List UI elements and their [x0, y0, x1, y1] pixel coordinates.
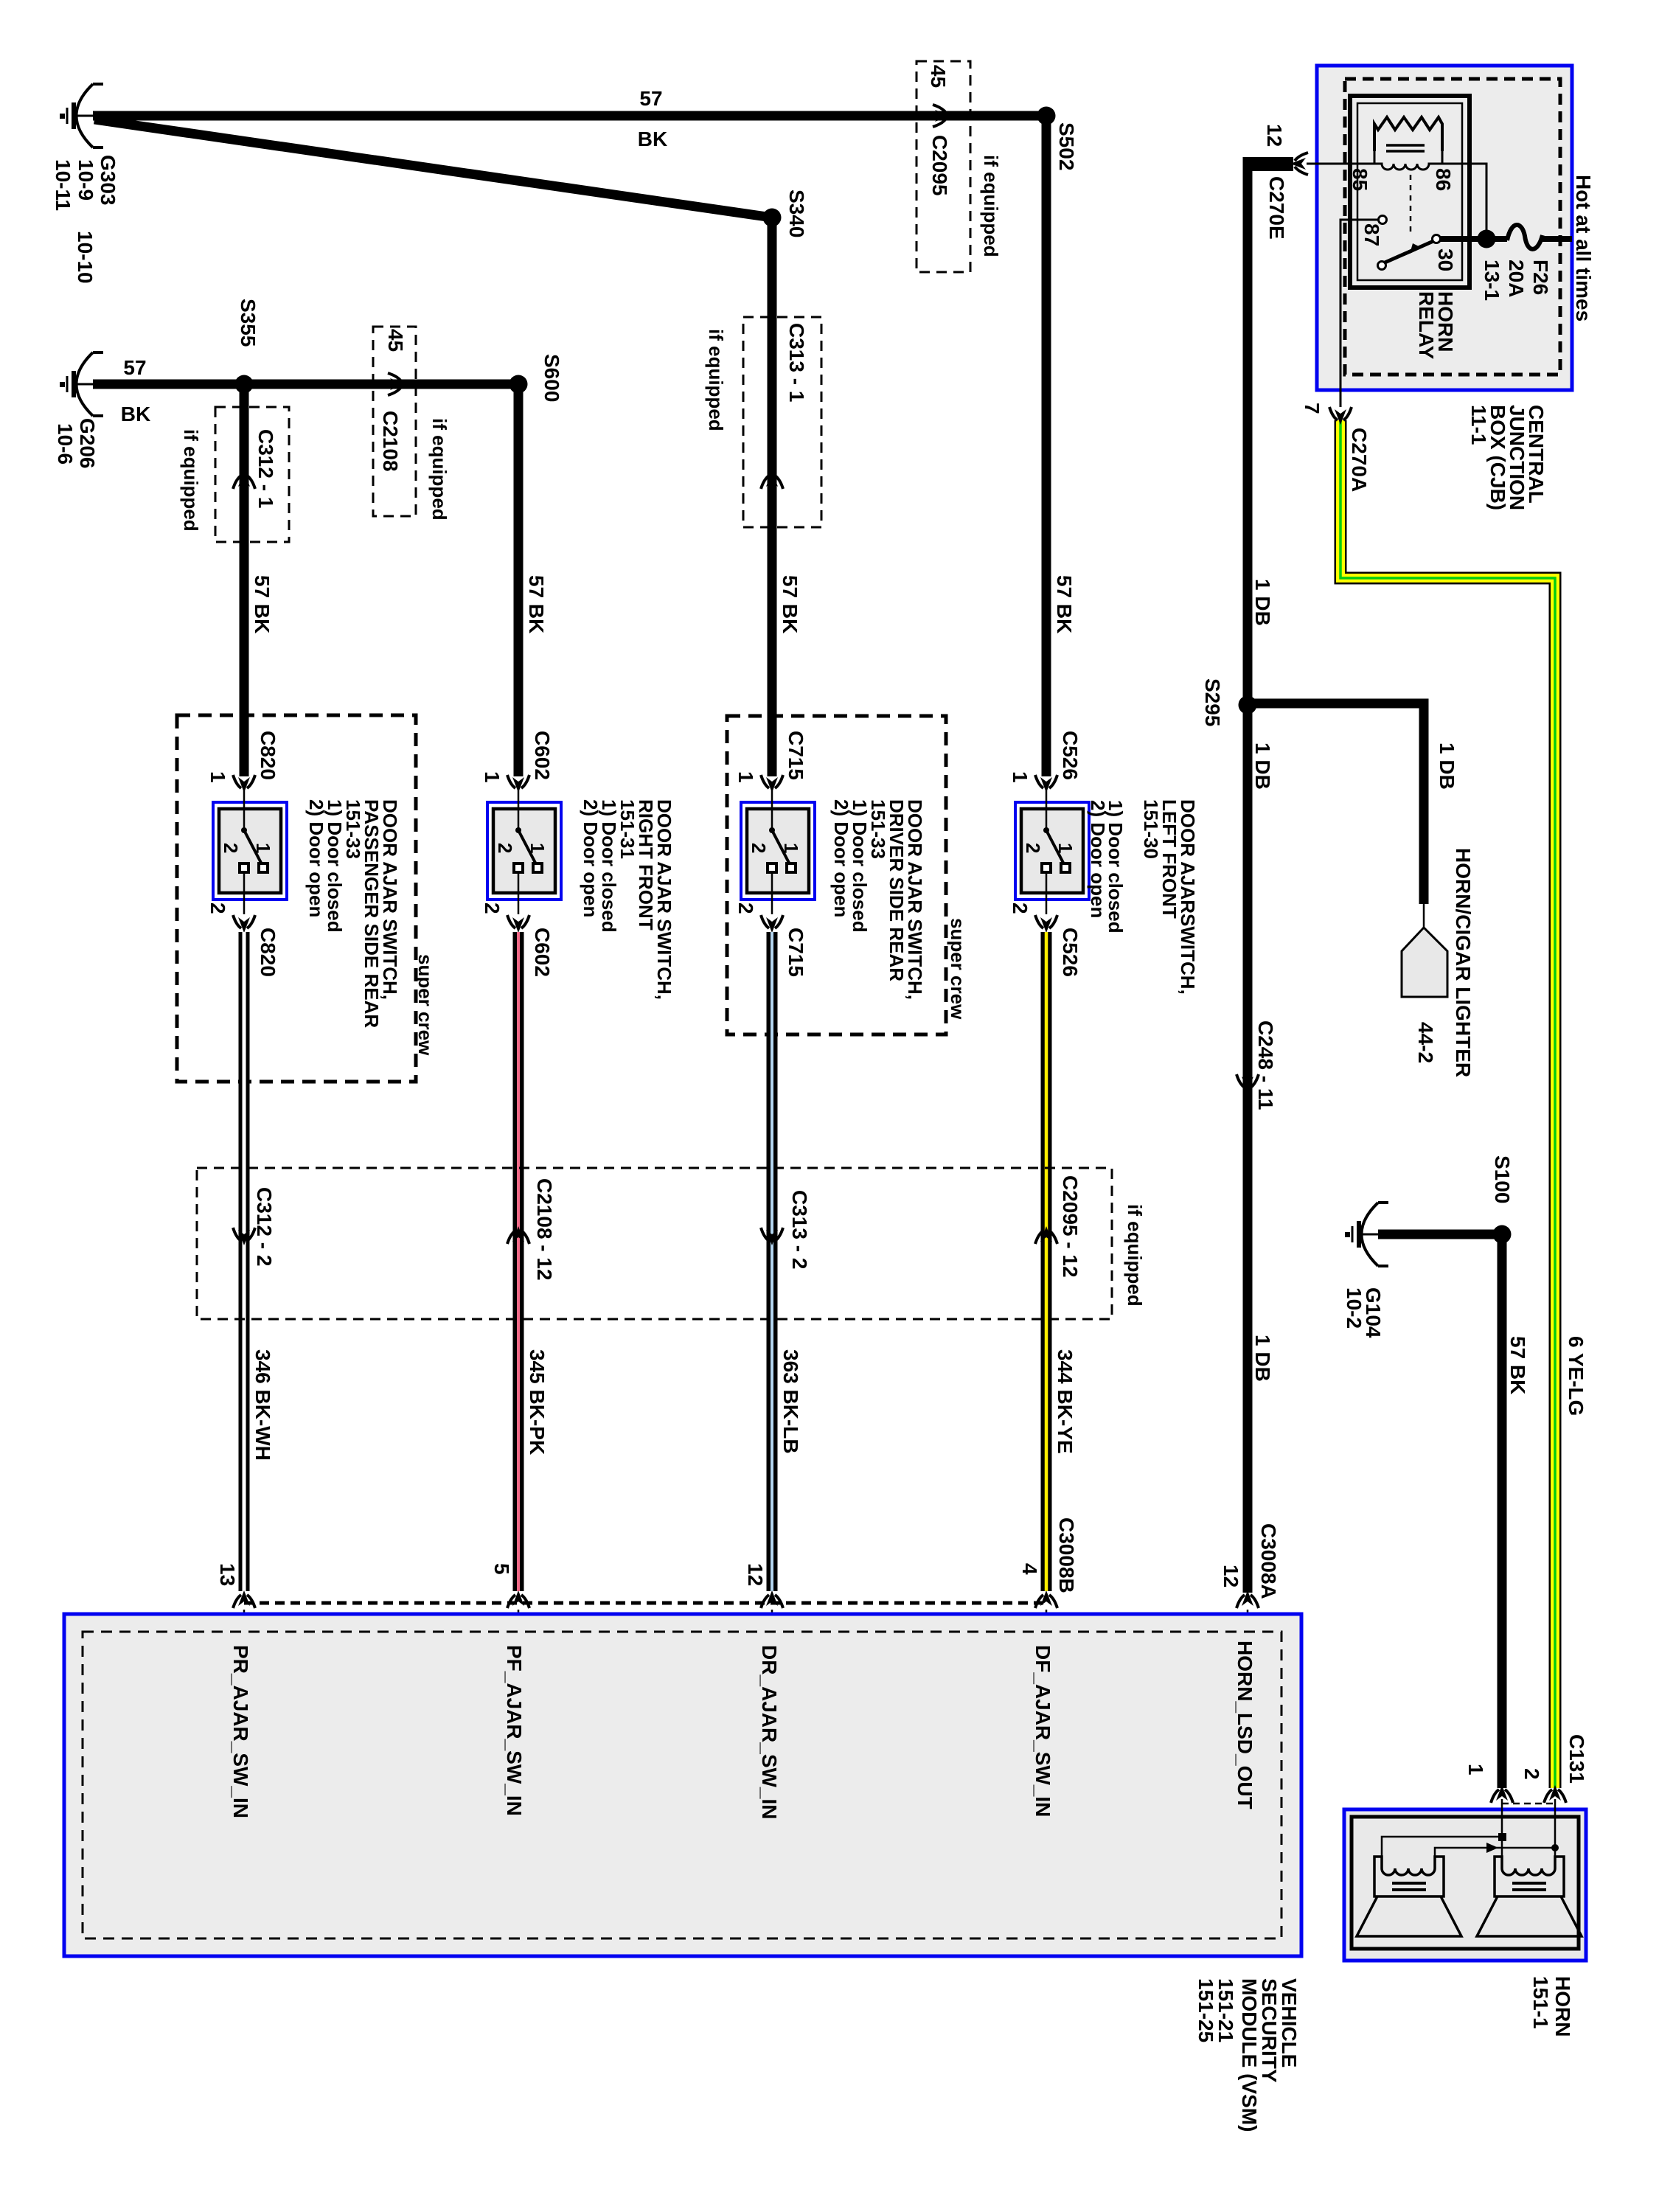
svg-text:10-10: 10-10	[74, 231, 97, 284]
connector C2108-12	[507, 1226, 529, 1244]
svg-text:45: 45	[927, 65, 950, 88]
svg-text:2: 2	[734, 902, 757, 914]
svg-text:S340: S340	[785, 189, 808, 237]
svg-text:C820: C820	[257, 731, 279, 780]
svg-text:10-2: 10-2	[1343, 1287, 1366, 1329]
svg-text:7: 7	[1301, 403, 1324, 414]
svg-text:57: 57	[123, 356, 146, 379]
connector C3008B dashed line	[244, 1601, 1046, 1605]
svg-text:57 BK: 57 BK	[525, 575, 548, 633]
svg-text:6 YE-LG: 6 YE-LG	[1565, 1336, 1587, 1416]
wire 57 BK from G303 to S502	[93, 111, 1046, 121]
wire 346 BK-WH	[239, 932, 250, 1591]
splice relay 86 / fuse node	[1478, 230, 1496, 248]
svg-text:1: 1	[1464, 1764, 1487, 1775]
svg-text:DR_AJAR_SW_IN: DR_AJAR_SW_IN	[758, 1645, 781, 1820]
connector C2108	[388, 373, 406, 395]
svg-text:1: 1	[1054, 843, 1077, 853]
switch pin2 lead	[518, 874, 520, 914]
svg-text:87: 87	[1360, 223, 1383, 246]
svg-text:RELAY: RELAY	[1415, 291, 1438, 360]
svg-text:C3008B: C3008B	[1055, 1517, 1078, 1593]
connector C312-1	[233, 471, 255, 489]
svg-text:C602: C602	[531, 928, 554, 977]
horn box	[1344, 1809, 1586, 1961]
svg-text:C270A: C270A	[1348, 428, 1371, 492]
svg-text:G303: G303	[97, 155, 119, 206]
switch pin2 lead	[1046, 874, 1048, 914]
svg-text:2: 2	[206, 902, 229, 914]
svg-text:12: 12	[1263, 124, 1286, 147]
relay coil core lines	[1386, 145, 1425, 151]
connector C3008B pin 5	[507, 1590, 529, 1608]
svg-text:C2108 - 12: C2108 - 12	[533, 1178, 556, 1281]
svg-text:2: 2	[1520, 1768, 1543, 1780]
switch blade	[244, 830, 262, 864]
wire 57 BK to C602 pin 1	[514, 384, 524, 776]
svg-text:C2095 - 12: C2095 - 12	[1059, 1175, 1082, 1278]
connector C270A	[1329, 407, 1352, 425]
relay actuator dashed link	[1410, 175, 1412, 234]
relay pin 30 contact	[1433, 235, 1441, 243]
svg-text:151-25: 151-25	[1194, 1978, 1217, 2042]
svg-text:super crew: super crew	[947, 918, 969, 1020]
C312-1 dashed box	[215, 407, 289, 542]
svg-text:F26: F26	[1529, 260, 1552, 295]
connector C526 pin 2	[1035, 915, 1057, 933]
svg-text:if equipped: if equipped	[1124, 1204, 1146, 1307]
svg-text:10-9: 10-9	[74, 159, 97, 201]
cigar lighter symbol	[1402, 928, 1447, 997]
connector C2095	[933, 105, 950, 127]
horn wiring pin 2	[1554, 1799, 1557, 1868]
svg-text:1: 1	[526, 843, 549, 853]
svg-text:13-1: 13-1	[1481, 260, 1503, 301]
svg-text:57: 57	[639, 87, 662, 110]
wire 1 DB main vertical	[1243, 157, 1253, 1593]
svg-text:C820: C820	[257, 928, 279, 977]
door ajar switch C526	[1015, 802, 1089, 900]
svg-text:if equipped: if equipped	[180, 429, 202, 532]
svg-text:DF_AJAR_SW_IN: DF_AJAR_SW_IN	[1032, 1645, 1054, 1817]
splice S100	[1493, 1225, 1512, 1244]
horn wiring pin 1	[1501, 1799, 1503, 1868]
svg-text:2) Door open: 2) Door open	[305, 799, 327, 917]
switch pin1 lead	[243, 790, 246, 829]
wire 57 BK to C715 pin 1	[768, 218, 777, 776]
svg-text:57 BK: 57 BK	[779, 575, 801, 633]
switch blade	[1046, 830, 1064, 864]
svg-text:151-30: 151-30	[1140, 799, 1162, 859]
svg-text:C2108: C2108	[379, 411, 402, 472]
horn element left	[1374, 1857, 1444, 1896]
connector C3008B pin 4	[1035, 1590, 1057, 1608]
svg-text:2) Door open: 2) Door open	[580, 799, 602, 917]
relay blade	[1383, 241, 1433, 263]
svg-text:C312 - 1: C312 - 1	[254, 429, 277, 508]
svg-text:2) Door open: 2) Door open	[1087, 800, 1109, 918]
connector C313-1	[761, 471, 783, 489]
svg-text:346 BK-WH: 346 BK-WH	[251, 1349, 274, 1461]
connector C3008B pin 13	[233, 1590, 255, 1608]
wire stub into VSM	[1046, 1610, 1048, 1632]
svg-text:C715: C715	[785, 928, 807, 977]
door ajar switch C715	[741, 802, 815, 900]
switch pin1 lead	[518, 790, 520, 829]
svg-text:C131: C131	[1565, 1734, 1588, 1784]
svg-text:13: 13	[216, 1563, 239, 1586]
wire 57 BK to C820 pin 1	[240, 384, 249, 776]
connector C602 pin 1	[507, 775, 529, 793]
switch pin2 lead	[771, 874, 773, 914]
svg-text:C270E: C270E	[1265, 176, 1288, 240]
svg-text:12: 12	[1220, 1565, 1242, 1587]
svg-text:5: 5	[490, 1563, 513, 1575]
svg-text:12: 12	[744, 1563, 767, 1586]
connector C820 pin 2	[233, 915, 255, 933]
splice S502	[1037, 107, 1056, 125]
svg-text:10-11: 10-11	[52, 159, 74, 211]
splice S600	[509, 375, 528, 394]
connector C602 pin 2	[507, 915, 529, 933]
wire stub into VSM	[771, 1610, 773, 1632]
wire stub into VSM	[243, 1610, 246, 1632]
connector C715 pin 2	[761, 915, 783, 933]
switch blade	[518, 830, 536, 864]
svg-text:1 DB: 1 DB	[1251, 1335, 1274, 1382]
svg-text:1: 1	[1009, 771, 1032, 783]
connector C313-2	[761, 1228, 783, 1245]
connector C131 dashed line	[1502, 1803, 1555, 1805]
svg-text:2: 2	[1022, 843, 1044, 853]
svg-text:2: 2	[1009, 902, 1032, 914]
svg-text:S355: S355	[237, 299, 260, 347]
connector C3008A pin 12	[1237, 1590, 1259, 1608]
svg-text:151-1: 151-1	[1529, 1976, 1552, 2029]
switch blade	[772, 830, 790, 864]
connector C820 pin 1	[233, 775, 255, 793]
svg-text:S100: S100	[1491, 1155, 1514, 1203]
svg-text:BK: BK	[121, 403, 150, 425]
wire 57 BK to C526 pin 1	[1042, 116, 1051, 776]
if equipped dashed box	[197, 1168, 1112, 1319]
svg-text:85: 85	[1349, 168, 1371, 191]
svg-text:1: 1	[780, 843, 802, 853]
wire 363 BK-LB	[767, 932, 778, 1591]
relay resistor zigzag	[1374, 117, 1442, 151]
super crew dashed box (passenger rear)	[177, 715, 416, 1082]
connector C131 pin 2	[1544, 1785, 1566, 1803]
svg-text:C313 - 2: C313 - 2	[788, 1190, 811, 1269]
svg-text:S502: S502	[1055, 122, 1078, 170]
svg-text:30: 30	[1434, 248, 1457, 271]
wire S295 branch to cigar lighter	[1248, 703, 1424, 904]
ground G206	[60, 352, 103, 416]
svg-text:363 BK-LB: 363 BK-LB	[779, 1349, 802, 1454]
svg-text:if equipped: if equipped	[705, 329, 727, 431]
svg-text:1: 1	[206, 771, 229, 783]
svg-text:1 DB: 1 DB	[1436, 742, 1458, 790]
connector C526 pin 1	[1035, 775, 1057, 793]
horn element right	[1495, 1857, 1564, 1896]
connector C248-11	[1237, 1074, 1259, 1092]
svg-text:S600: S600	[540, 354, 563, 402]
svg-text:if equipped: if equipped	[428, 418, 451, 521]
connector C2095-12	[1035, 1226, 1057, 1244]
svg-text:Hot at all times: Hot at all times	[1572, 175, 1595, 321]
svg-text:45: 45	[384, 329, 407, 352]
svg-text:1 DB: 1 DB	[1251, 579, 1274, 626]
svg-text:PF_AJAR_SW_IN: PF_AJAR_SW_IN	[503, 1645, 526, 1816]
svg-text:BK: BK	[638, 128, 667, 150]
connector C270E	[1290, 153, 1308, 175]
door ajar switch C820	[213, 802, 287, 900]
wire 57 BK to horn	[1498, 1234, 1507, 1788]
VSM dashed outline	[83, 1632, 1281, 1938]
relay coil bumps + pin85 lead	[1307, 164, 1486, 239]
svg-text:if equipped: if equipped	[980, 155, 1002, 257]
splice S340	[763, 209, 782, 227]
switch pin1 lead	[771, 790, 773, 829]
C2108 dashed box	[373, 327, 416, 516]
svg-text:C715: C715	[785, 731, 807, 780]
switch pin2 lead	[243, 874, 246, 914]
connector C3008B pin 12	[761, 1590, 783, 1608]
svg-text:G206: G206	[76, 418, 99, 469]
horn relay box	[1350, 96, 1470, 288]
super crew dashed box (driver rear)	[727, 716, 946, 1034]
svg-text:4: 4	[1018, 1563, 1041, 1575]
svg-text:PR_AJAR_SW_IN: PR_AJAR_SW_IN	[229, 1645, 252, 1818]
splice S295	[1239, 696, 1257, 714]
svg-text:2: 2	[494, 843, 516, 853]
svg-text:2: 2	[748, 843, 770, 853]
svg-text:344 BK-YE: 344 BK-YE	[1054, 1349, 1077, 1454]
svg-text:1 DB: 1 DB	[1251, 742, 1274, 790]
vehicle security module box	[64, 1614, 1301, 1956]
door ajar switch C602	[487, 802, 561, 900]
wire 57 BK diagonal G303 to S340	[94, 119, 772, 218]
connector C715 pin 1	[761, 775, 783, 793]
svg-text:2) Door open: 2) Door open	[830, 799, 852, 917]
svg-text:C526: C526	[1059, 928, 1082, 977]
wire relay pin85 to C270E	[1307, 163, 1350, 165]
wire stub into VSM	[518, 1610, 520, 1632]
svg-text:57 BK: 57 BK	[1053, 575, 1076, 633]
svg-text:1: 1	[252, 843, 274, 853]
connector C270E bar	[1248, 157, 1293, 171]
svg-text:345 BK-PK: 345 BK-PK	[526, 1349, 549, 1455]
wire B+ hot feed with fuse F26	[1439, 236, 1507, 242]
svg-text:HORN/CIGAR LIGHTER: HORN/CIGAR LIGHTER	[1452, 848, 1475, 1077]
svg-text:2: 2	[481, 902, 504, 914]
svg-text:C312 - 2: C312 - 2	[253, 1187, 276, 1266]
wire 6 YE-LG	[1340, 420, 1555, 1788]
svg-text:57 BK: 57 BK	[251, 575, 274, 633]
svg-text:C248 - 11: C248 - 11	[1254, 1020, 1277, 1110]
wire 57 BK ground run	[1378, 1230, 1502, 1239]
wire 57 BK from G206 to S600	[93, 380, 518, 389]
svg-text:S295: S295	[1201, 678, 1224, 726]
svg-text:HORN: HORN	[1551, 1976, 1574, 2037]
svg-text:super crew: super crew	[414, 954, 437, 1056]
svg-text:10-6: 10-6	[54, 423, 77, 465]
svg-text:2: 2	[220, 843, 242, 853]
wire 344 BK-YE	[1041, 932, 1052, 1591]
svg-text:C526: C526	[1059, 731, 1082, 780]
svg-text:44-2: 44-2	[1414, 1022, 1437, 1063]
central junction box CJB	[1317, 66, 1572, 390]
connector C312-2	[233, 1228, 255, 1245]
C2095 dashed box	[917, 61, 970, 272]
svg-text:C313 - 1: C313 - 1	[785, 323, 808, 402]
splice S355	[235, 375, 254, 394]
svg-text:HORN_LSD_OUT: HORN_LSD_OUT	[1234, 1641, 1256, 1809]
svg-text:1: 1	[734, 771, 757, 783]
ground G303	[60, 84, 103, 147]
ground G104	[1345, 1203, 1388, 1266]
svg-text:1: 1	[481, 771, 504, 783]
svg-text:20A: 20A	[1505, 260, 1528, 297]
svg-text:MODULE (VSM): MODULE (VSM)	[1238, 1978, 1261, 2132]
svg-text:86: 86	[1432, 168, 1455, 191]
svg-text:57 BK: 57 BK	[1506, 1336, 1529, 1394]
wire stub into VSM	[1247, 1610, 1249, 1632]
C313-1 dashed box	[743, 317, 821, 527]
svg-text:C2095: C2095	[928, 135, 951, 196]
wire 87 to C270A	[1340, 220, 1379, 407]
svg-text:C602: C602	[531, 731, 554, 780]
wire 345 BK-PK	[513, 932, 524, 1591]
svg-text:C3008A: C3008A	[1257, 1523, 1280, 1599]
svg-text:11-1: 11-1	[1467, 405, 1490, 445]
switch pin1 lead	[1046, 790, 1048, 829]
CJB dashed outline	[1345, 79, 1560, 375]
connector C131 pin 1	[1491, 1785, 1513, 1803]
relay pin 87 contact	[1379, 216, 1387, 224]
